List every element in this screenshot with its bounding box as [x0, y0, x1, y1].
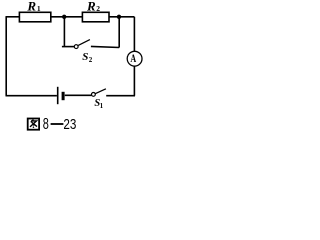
switch S2: [74, 40, 90, 49]
wire: S2 left lead: [62, 46, 74, 48]
wire: top left segment: [6, 16, 20, 18]
node: junction dot between R1 and R2: [62, 15, 66, 19]
svg-text:8: 8: [43, 116, 49, 133]
wire: top right segment: [109, 16, 134, 18]
svg-text:23: 23: [63, 117, 76, 133]
resistor R2: [82, 12, 109, 21]
svg-text:2: 2: [89, 56, 93, 64]
wire: right vertical down to ammeter: [133, 17, 135, 52]
svg-text:1: 1: [37, 4, 41, 13]
wire: top middle segment: [51, 16, 83, 18]
wire: S2 right lead: [91, 46, 119, 47]
svg-text:A: A: [130, 52, 136, 65]
wire: branch down from junction dot 1: [63, 17, 65, 46]
caption em dash: [51, 123, 64, 125]
switch S1: [65, 89, 106, 97]
label S2: [82, 51, 93, 64]
resistor R1: [19, 12, 50, 21]
wire: bottom left segment from battery to left side: [6, 95, 57, 97]
battery cell: [58, 87, 65, 104]
caption character 图 (drawn): [28, 119, 39, 130]
svg-text:2: 2: [96, 4, 100, 13]
node: junction dot after R2: [117, 15, 121, 19]
wire: bottom right segment to S1: [106, 95, 135, 97]
label S1: [94, 98, 103, 110]
svg-text:1: 1: [100, 103, 104, 110]
label R2: [86, 0, 100, 13]
wire: branch down from junction dot 2: [118, 17, 120, 48]
wire: left vertical side: [5, 17, 7, 96]
svg-text:S: S: [82, 51, 88, 63]
label R1: [26, 0, 41, 13]
ammeter A: [127, 51, 142, 66]
svg-text:R: R: [86, 0, 96, 13]
wire: right vertical below ammeter: [133, 66, 135, 96]
svg-text:R: R: [26, 0, 36, 13]
